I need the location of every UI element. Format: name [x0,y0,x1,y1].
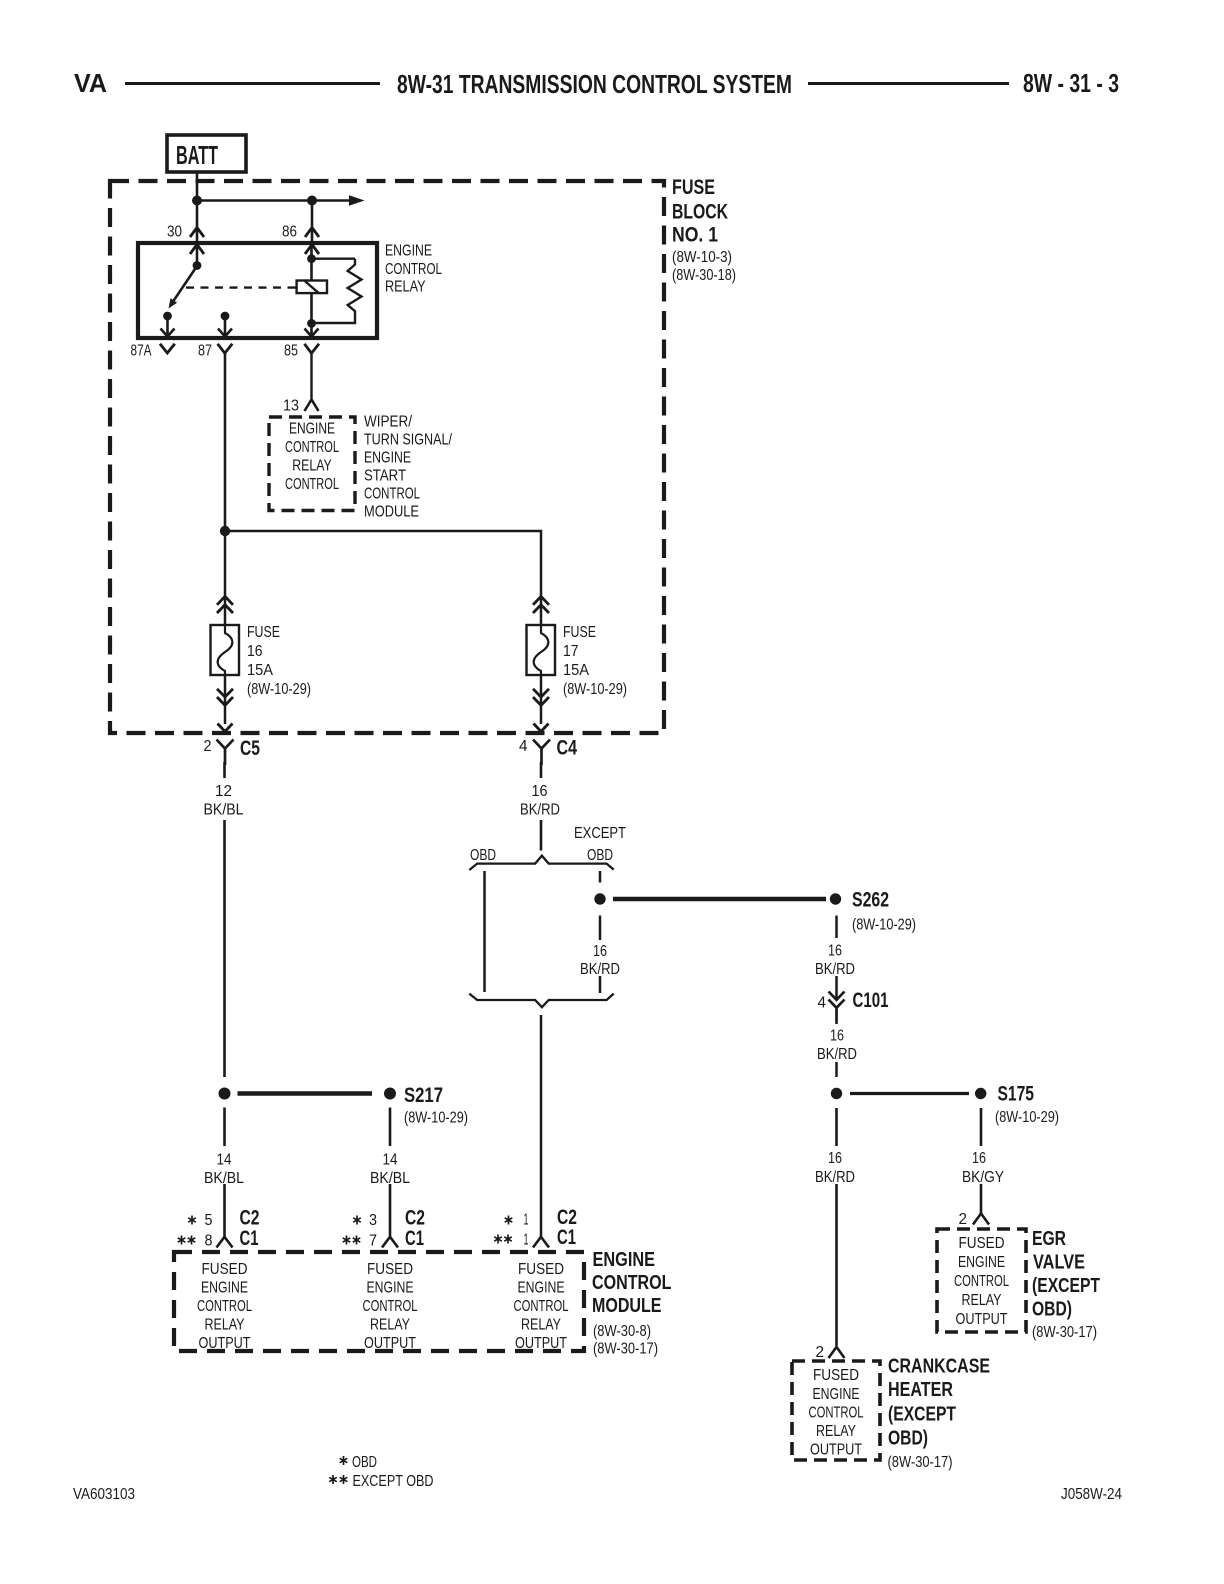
svg-text:14: 14 [217,1152,232,1169]
svg-text:(8W-10-29): (8W-10-29) [247,681,311,698]
wire BATT to relay pin 30 [196,172,199,243]
svg-text:(8W-30-18): (8W-30-18) [672,267,736,284]
crankcase heater box text [809,1367,864,1459]
svg-text:BK/RD: BK/RD [580,961,620,978]
wire OBD branch [483,871,486,992]
svg-text:BK/RD: BK/RD [817,1046,857,1063]
ECM pin group 3 [505,1206,577,1229]
wire pin 87 down to junction [224,353,227,531]
svg-text:S175: S175 [998,1083,1035,1106]
ECM column 1 text fused engine control relay output [197,1261,252,1352]
wire C101 to S175 [835,1022,838,1077]
svg-text:ENGINE: ENGINE [289,421,335,438]
svg-text:3: 3 [369,1212,377,1229]
svg-text:5: 5 [205,1212,213,1229]
svg-text:FUSED: FUSED [959,1235,1005,1252]
svg-text:OUTPUT: OUTPUT [956,1311,1008,1328]
svg-text:30: 30 [167,224,182,241]
svg-text:ENGINE: ENGINE [367,1280,414,1297]
svg-text:(8W-30-17): (8W-30-17) [593,1341,658,1358]
wire tap to splice S262 [613,897,826,902]
relay pin 86 internal chevron [305,245,319,255]
svg-text:(8W-10-3): (8W-10-3) [672,249,732,266]
svg-text:2: 2 [204,738,212,755]
svg-text:16: 16 [830,1028,844,1045]
svg-text:87A: 87A [131,343,152,360]
wire 87A to edge [166,316,169,336]
fuse 16 element [211,625,240,675]
svg-text:2: 2 [816,1344,825,1361]
svg-text:RELAY: RELAY [962,1292,1002,1309]
svg-text:OUTPUT: OUTPUT [515,1335,567,1352]
engine control module dashed box [174,1252,584,1351]
wire label 14 BK/BL mid [368,1146,411,1187]
ECM column 3 text fused engine control relay output [514,1261,569,1352]
svg-text:OUTPUT: OUTPUT [810,1442,862,1459]
svg-text:MODULE: MODULE [364,504,419,521]
svg-text:16: 16 [247,643,263,660]
node junction at pin 86 branch [307,196,317,206]
wire label 16 BK/GY [958,1146,1006,1186]
relay coil element [297,281,327,294]
wire S217 to ECM pin 5 [223,1108,226,1237]
svg-text:OBD: OBD [470,847,496,864]
relay coil bottom node [307,319,316,328]
relay switch blade [174,266,197,301]
crankcase pin 2 fork [829,1347,845,1358]
svg-text:BK/BL: BK/BL [370,1170,410,1187]
wire fuse 17 down [540,675,543,724]
legend star OBD [340,1454,377,1471]
svg-text:HEATER: HEATER [888,1379,953,1401]
svg-text:VA: VA [74,68,107,98]
ECM pin group 2 [353,1207,425,1230]
arrowhead at C4 [534,724,549,732]
svg-text:RELAY: RELAY [370,1317,410,1334]
svg-text:ENGINE: ENGINE [385,243,432,260]
wire S175 to EGR valve [980,1108,983,1214]
svg-text:BATT: BATT [176,140,218,170]
header rule right [808,82,1009,85]
svg-text:VA603103: VA603103 [73,1486,135,1503]
svg-text:FUSE: FUSE [247,624,280,641]
svg-text:(8W-30-17): (8W-30-17) [888,1454,953,1471]
relay coil top node [307,254,316,263]
svg-text:13: 13 [283,398,299,415]
wire center to ECM pin 1 [540,1015,543,1237]
svg-text:FUSED: FUSED [367,1261,413,1278]
svg-text:C1: C1 [405,1227,424,1250]
EGR valve box text [954,1235,1009,1328]
wire relay 85 to module pin 13 [310,353,312,399]
relay pin 30 internal chevron [190,245,204,255]
wire label 16 BK/RD above S175 [814,1024,859,1063]
svg-text:OUTPUT: OUTPUT [364,1335,416,1352]
svg-text:(8W-10-29): (8W-10-29) [995,1109,1059,1126]
svg-text:EGR: EGR [1032,1228,1066,1250]
svg-text:(8W-10-29): (8W-10-29) [563,681,627,698]
engine control relay control text [285,421,339,494]
svg-text:(EXCEPT: (EXCEPT [888,1404,956,1426]
svg-text:ENGINE: ENGINE [813,1386,860,1403]
svg-text:12: 12 [215,783,232,800]
svg-text:15A: 15A [563,662,589,679]
svg-text:FUSED: FUSED [518,1261,564,1278]
svg-text:TURN SIGNAL/: TURN SIGNAL/ [364,432,452,449]
fuse 16 terminal chevrons bottom [217,689,233,706]
relay common node [193,261,202,270]
ECM column 2 text fused engine control relay output [363,1261,418,1352]
svg-text:CONTROL: CONTROL [197,1298,252,1315]
svg-text:FUSE: FUSE [563,624,596,641]
svg-text:4: 4 [818,995,827,1012]
svg-text:8W - 31 - 3: 8W - 31 - 3 [1023,68,1119,98]
relay node 87 [221,312,230,321]
svg-text:2: 2 [959,1211,968,1228]
svg-text:14: 14 [383,1152,398,1169]
arrowhead 87 at edge [218,329,232,337]
svg-text:8: 8 [205,1233,213,1250]
svg-text:(8W-30-17): (8W-30-17) [1032,1324,1097,1341]
relay suppression resistor [312,259,362,323]
ECM pin 3/7 fork [382,1237,398,1248]
svg-text:CONTROL: CONTROL [363,1298,418,1315]
svg-text:17: 17 [563,643,579,660]
svg-text:BLOCK: BLOCK [672,201,728,224]
wire tap to splice S175 [850,1092,969,1095]
node at S262 tap [594,893,605,904]
svg-text:16: 16 [972,1150,986,1167]
wiper turn signal module label [364,414,452,521]
node junction at BATT feed [192,196,202,206]
svg-text:RELAY: RELAY [521,1317,561,1334]
pin 86 connector chevron [305,228,319,238]
ECM pin 1/1 fork [533,1237,549,1248]
wire label 16 BK/RD crankcase [813,1146,858,1186]
arrowhead 85 at edge [305,329,319,337]
connector C101 [818,989,889,1022]
node feed junction [220,526,230,536]
wire junction to fuse 17 branch [225,531,541,625]
fuse 17 terminal chevrons top [533,596,549,613]
svg-text:(8W-10-29): (8W-10-29) [404,1110,468,1127]
svg-text:CONTROL: CONTROL [285,476,339,493]
wire C4 to split [540,762,543,851]
wire 86 to coil [310,243,313,281]
pin 13 connector chevron [305,400,319,412]
svg-text:BK/BL: BK/BL [204,802,244,819]
fuse block no.1 dashed enclosure [110,181,664,733]
svg-text:87: 87 [198,343,212,360]
fuse 16 label [247,624,311,698]
svg-text:J058W-24: J058W-24 [1061,1486,1122,1503]
svg-text:ENGINE: ENGINE [518,1280,565,1297]
node at S175 tap [831,1088,842,1099]
svg-text:ENGINE: ENGINE [201,1280,248,1297]
svg-text:EXCEPT: EXCEPT [574,825,626,842]
ECM pin 5/8 fork [217,1237,233,1248]
svg-text:C101: C101 [853,989,889,1012]
svg-text:OBD: OBD [352,1454,377,1471]
svg-text:CONTROL: CONTROL [592,1272,672,1294]
crankcase heater label [888,1356,991,1472]
svg-text:16: 16 [593,943,607,960]
svg-text:8W-31 TRANSMISSION CONTROL SYS: 8W-31 TRANSMISSION CONTROL SYSTEM [397,69,792,99]
engine control relay box [138,243,377,338]
svg-text:BK/RD: BK/RD [520,802,560,819]
pin 30 connector chevron [190,228,204,238]
svg-text:(8W-10-29): (8W-10-29) [852,917,916,934]
splice S175 [975,1083,1059,1127]
wire pin30 into relay [196,243,199,266]
svg-text:ENGINE: ENGINE [958,1254,1005,1271]
svg-text:ENGINE: ENGINE [593,1249,656,1271]
wire 87 to edge [224,316,227,336]
fuse 17 label [563,624,627,698]
wire branch to relay pin 86 [311,201,314,244]
svg-text:OUTPUT: OUTPUT [199,1335,251,1352]
svg-text:START: START [364,468,406,485]
svg-text:BK/BL: BK/BL [204,1170,244,1187]
wire except-obd branch upper [599,871,602,883]
svg-text:OBD): OBD) [1032,1299,1072,1321]
wire S175 to crankcase heater [835,1108,838,1346]
svg-text:85: 85 [284,343,298,360]
relay actuator dashed link [186,286,296,288]
wire C5 to S217 [223,762,226,1077]
svg-text:C1: C1 [557,1226,576,1249]
engine control module label [592,1249,672,1358]
svg-text:FUSE: FUSE [672,176,715,199]
svg-text:86: 86 [282,224,297,241]
svg-text:15A: 15A [247,662,273,679]
svg-text:RELAY: RELAY [292,458,332,475]
splice S262 [830,889,916,934]
svg-text:OBD: OBD [587,847,613,864]
crankcase heater dashed box [792,1361,880,1460]
svg-text:CONTROL: CONTROL [364,486,420,503]
svg-text:OBD): OBD) [888,1428,928,1450]
svg-text:RELAY: RELAY [385,279,426,296]
engine control relay control dashed box [269,417,355,511]
svg-text:16: 16 [828,943,842,960]
label EXCEPT OBD [574,825,626,864]
svg-text:C4: C4 [557,737,578,760]
arrowhead 87A at edge [161,329,175,337]
wire junction to fuse 16 [224,531,227,625]
svg-text:C1: C1 [240,1227,259,1250]
svg-text:FUSED: FUSED [813,1367,859,1384]
EGR valve label [1032,1228,1100,1341]
svg-text:BK/GY: BK/GY [962,1169,1004,1186]
svg-text:(8W-30-8): (8W-30-8) [593,1323,651,1340]
svg-text:FUSED: FUSED [202,1261,248,1278]
svg-text:RELAY: RELAY [205,1317,245,1334]
svg-text:CONTROL: CONTROL [385,261,442,278]
arrowhead at C5 [218,724,233,732]
svg-text:S217: S217 [404,1084,443,1107]
svg-text:16: 16 [828,1150,842,1167]
engine control relay label [385,243,442,296]
fuse 16 terminal chevrons top [217,596,233,613]
svg-text:WIPER/: WIPER/ [364,414,412,431]
split brace top [469,856,613,870]
pin 87A connector V below box [160,344,175,353]
wire label 12 BK/BL [202,778,247,820]
svg-text:CONTROL: CONTROL [954,1273,1009,1290]
ECM pin group 1: star [188,1207,259,1230]
battery feed box BATT [167,135,246,172]
relay node 87A [163,312,172,321]
svg-text:CRANKCASE: CRANKCASE [888,1356,990,1378]
svg-text:1: 1 [524,1232,529,1249]
wire S217 to ECM pin 3 [389,1108,392,1237]
pin 87 connector V below box [218,344,233,353]
svg-text:RELAY: RELAY [816,1423,856,1440]
wire label 16 BK/RD above C101 [814,938,859,978]
arrow continuation [349,195,365,205]
svg-text:(EXCEPT: (EXCEPT [1032,1275,1100,1297]
svg-text:CONTROL: CONTROL [809,1405,864,1422]
wire label 16 BK/RD [517,778,564,820]
svg-text:CONTROL: CONTROL [285,439,339,456]
wire label 16 BK/RD except branch [578,940,622,978]
svg-text:EXCEPT OBD: EXCEPT OBD [353,1473,434,1490]
fuse 17 terminal chevrons bottom [533,689,549,706]
splice S217 [219,1084,469,1127]
svg-text:C5: C5 [240,737,260,760]
svg-text:MODULE: MODULE [592,1295,662,1317]
svg-text:CONTROL: CONTROL [514,1298,569,1315]
connector C5 [204,737,261,765]
svg-text:ENGINE: ENGINE [364,450,411,467]
svg-text:BK/RD: BK/RD [815,1169,855,1186]
wire 85 to edge [310,323,313,336]
EGR pin 2 fork [973,1214,989,1225]
fuse 17 element [527,625,556,675]
wire coil to bottom node [310,293,313,323]
connector C4 [519,737,577,766]
EGR valve dashed box [937,1229,1026,1332]
header rule left [125,82,380,85]
svg-text:VALVE: VALVE [1033,1252,1085,1274]
fuse block label [672,176,736,284]
svg-text:16: 16 [532,783,548,800]
split brace bottom [469,994,613,1008]
pin 85 connector V below box [304,344,319,353]
svg-text:BK/RD: BK/RD [815,961,855,978]
wire label 14 BK/BL left [203,1146,246,1187]
legend double star EXCEPT OBD [329,1473,433,1490]
wire fuse 16 down [224,675,227,724]
svg-text:S262: S262 [852,889,889,912]
svg-text:1: 1 [524,1212,529,1229]
svg-text:4: 4 [519,738,528,755]
svg-text:NO. 1: NO. 1 [672,224,718,247]
wire S262 to C101 [835,916,838,1000]
wire bus to arrow [197,199,353,202]
svg-text:7: 7 [369,1233,377,1250]
